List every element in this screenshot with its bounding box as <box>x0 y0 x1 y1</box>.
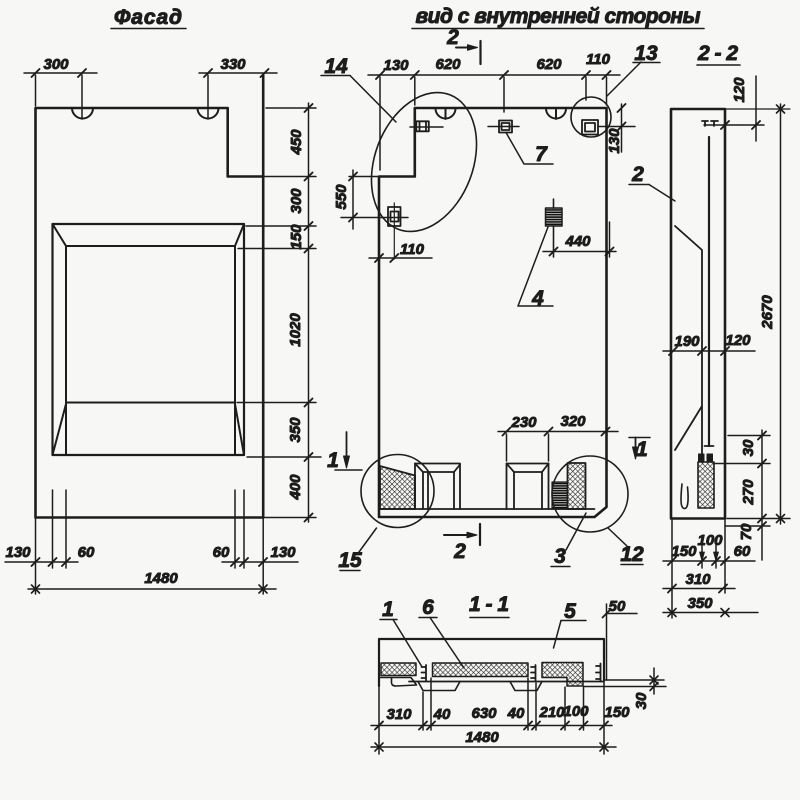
leader and label 14 <box>321 55 350 78</box>
svg-text:2: 2 <box>453 540 466 563</box>
svg-text:30: 30 <box>740 439 757 456</box>
svg-text:130: 130 <box>270 544 296 561</box>
svg-text:100: 100 <box>563 703 589 720</box>
section 2-2 inner profile chamfers <box>675 226 702 462</box>
facade lifting loop right <box>198 108 219 119</box>
svg-text:630: 630 <box>471 705 497 722</box>
svg-text:50: 50 <box>609 598 626 615</box>
svg-text:1020: 1020 <box>287 313 304 347</box>
svg-text:350: 350 <box>287 417 304 443</box>
rebar bottom dash <box>705 445 714 447</box>
drip groove hook <box>681 484 688 509</box>
svg-text:1: 1 <box>636 438 648 461</box>
bottom extension lines <box>672 519 790 619</box>
facade bottom dim extension lines <box>5 490 298 594</box>
dim 2670 <box>777 104 785 524</box>
svg-text:3: 3 <box>554 545 566 568</box>
svg-text:12: 12 <box>620 543 644 566</box>
svg-text:110: 110 <box>400 241 425 258</box>
bottom dim 310 <box>663 585 735 593</box>
lasso oval around notch corner <box>352 77 495 247</box>
svg-text:2-2: 2-2 <box>697 42 738 65</box>
top embed dashes <box>702 121 718 126</box>
embed plate 7 <box>488 121 519 133</box>
svg-text:350: 350 <box>687 595 713 612</box>
svg-text:130: 130 <box>5 544 31 561</box>
svg-text:310: 310 <box>685 571 711 588</box>
svg-text:120: 120 <box>731 77 748 103</box>
section 1-1 outline top <box>379 639 604 686</box>
svg-text:120: 120 <box>725 332 751 349</box>
svg-text:1480: 1480 <box>144 570 178 587</box>
coil item 12 <box>552 482 568 509</box>
svg-text:150: 150 <box>671 543 697 560</box>
label 2 leader to section <box>629 163 649 186</box>
facade recess corner bevels <box>53 224 245 455</box>
svg-text:1: 1 <box>327 449 339 472</box>
svg-text:620: 620 <box>536 56 562 73</box>
hatched bearing block <box>698 462 714 508</box>
svg-text:1-1: 1-1 <box>469 593 509 616</box>
facade door recess inner frame <box>66 246 235 455</box>
leader and label 1 <box>380 598 397 621</box>
inner view title <box>412 5 704 29</box>
facade top dimension 330 <box>199 69 277 119</box>
svg-text:60: 60 <box>213 544 230 561</box>
hatched strip 2 <box>433 663 529 677</box>
svg-text:130: 130 <box>606 128 623 154</box>
section mark 2 top <box>456 41 481 64</box>
anchor bracket 2 <box>531 665 536 681</box>
hatched strip 3 with leg <box>542 663 583 687</box>
svg-text:13: 13 <box>634 42 658 65</box>
leader and label 5 <box>561 600 586 623</box>
svg-text:310: 310 <box>386 706 412 723</box>
bottom dim 1480 <box>371 743 616 751</box>
svg-text:40: 40 <box>507 705 525 722</box>
bottom dim row 150 100 60 <box>663 552 755 565</box>
svg-text:190: 190 <box>674 333 700 350</box>
anchor marks on block <box>699 454 713 462</box>
left hatched wedge 15 <box>380 466 415 509</box>
svg-text:1480: 1480 <box>465 729 499 746</box>
leader and label 12 <box>608 528 627 546</box>
bottom thin-zone line <box>409 681 604 683</box>
dim 50 right <box>603 604 638 680</box>
callout circle 15 <box>361 455 434 528</box>
hatched strip 1 <box>381 663 416 676</box>
section mark 1 left <box>335 432 362 470</box>
dim 110 <box>369 254 432 262</box>
dim 120 top <box>704 76 764 141</box>
svg-text:14: 14 <box>324 55 348 78</box>
svg-text:вид с внутренней стороны: вид с внутренней стороны <box>416 5 701 28</box>
door jamb block A <box>415 464 460 510</box>
svg-text:2: 2 <box>631 163 644 186</box>
embed plate 13 <box>582 120 598 135</box>
inner view lifting loop left <box>436 109 456 120</box>
foot 1 <box>418 682 460 691</box>
svg-text:300: 300 <box>43 56 69 73</box>
dims 230 320 <box>498 428 618 462</box>
section 2-2 title <box>697 42 740 65</box>
inner panel bottom ledge line <box>380 508 595 510</box>
svg-text:230: 230 <box>510 414 537 431</box>
leader and label 6 <box>419 596 437 619</box>
svg-text:4: 4 <box>531 287 544 310</box>
foot 2 <box>510 682 542 691</box>
right hatched block <box>568 463 586 509</box>
svg-text:110: 110 <box>586 51 611 68</box>
bottom left edge and tongue <box>379 678 417 687</box>
anchor bracket 3 <box>596 664 601 682</box>
section 2-2 outline <box>671 109 725 519</box>
svg-text:5: 5 <box>564 600 576 623</box>
leader and label 4 <box>518 227 553 306</box>
right side dims 30 270 70 <box>714 430 770 560</box>
facade title <box>111 6 186 29</box>
svg-text:60: 60 <box>734 543 751 560</box>
embed plate 4 lower left <box>388 203 401 259</box>
dim 440 <box>543 222 616 257</box>
facade door recess outer frame <box>53 224 245 455</box>
svg-text:1: 1 <box>382 598 394 621</box>
section mark 1 right <box>629 438 650 460</box>
svg-text:Фасад: Фасад <box>114 6 182 29</box>
facade top dimension 300 <box>24 69 97 119</box>
svg-text:210: 210 <box>538 704 565 721</box>
callout circle 13 <box>571 97 611 137</box>
svg-text:100: 100 <box>697 532 723 549</box>
bottom dim 350 <box>663 609 758 617</box>
svg-text:130: 130 <box>383 57 409 74</box>
bottom dim extension lines <box>379 678 604 754</box>
bottom dim row 310 40 630 40 210 100 150 <box>371 722 612 730</box>
dims 190 120 above bottom <box>663 347 755 355</box>
facade panel outline <box>36 75 264 518</box>
embed plate 14 at notch corner <box>410 121 443 131</box>
door jamb block B <box>507 464 549 510</box>
dim 130 top right <box>598 104 635 152</box>
svg-text:550: 550 <box>333 184 350 210</box>
svg-text:15: 15 <box>338 549 362 572</box>
section 1-1 title <box>469 593 509 618</box>
svg-text:6: 6 <box>422 596 434 619</box>
facade right dimension column line <box>237 103 321 522</box>
top dim row 130/620/620/110 <box>368 71 620 170</box>
inner view lifting loop right <box>546 109 566 120</box>
svg-text:30: 30 <box>633 692 650 709</box>
leader and label 13 <box>607 62 641 96</box>
svg-text:150: 150 <box>288 224 305 250</box>
svg-text:270: 270 <box>740 479 757 506</box>
leader and label 3 <box>566 513 586 550</box>
leader 7 <box>506 133 553 165</box>
section mark 2 bottom <box>444 524 480 545</box>
facade lifting loop left <box>72 108 93 119</box>
callout circle 12 <box>552 456 628 532</box>
svg-text:330: 330 <box>220 56 246 73</box>
dim 30 bottom right <box>584 668 666 694</box>
svg-text:40: 40 <box>433 706 451 723</box>
top extension and 2670 tick <box>725 108 790 110</box>
facade bottom dimension 1480 <box>28 585 276 593</box>
dim 550 <box>341 170 408 229</box>
svg-text:70: 70 <box>738 523 755 540</box>
svg-text:320: 320 <box>560 413 586 430</box>
svg-text:450: 450 <box>288 129 305 156</box>
svg-text:150: 150 <box>604 704 630 721</box>
rebar line <box>708 137 710 446</box>
svg-text:400: 400 <box>287 474 304 501</box>
anchor coil item 4 <box>546 199 563 257</box>
anchor bracket 1 <box>422 665 427 681</box>
svg-text:620: 620 <box>435 56 461 73</box>
inner panel outline <box>379 108 607 517</box>
svg-text:300: 300 <box>288 188 305 214</box>
facade bottom dim row 130/60 <box>5 561 298 563</box>
leader and label 15 <box>359 528 377 552</box>
svg-text:2670: 2670 <box>759 295 776 330</box>
svg-text:7: 7 <box>535 143 548 166</box>
svg-text:60: 60 <box>78 544 95 561</box>
svg-text:440: 440 <box>564 233 591 250</box>
svg-text:2: 2 <box>446 26 459 49</box>
